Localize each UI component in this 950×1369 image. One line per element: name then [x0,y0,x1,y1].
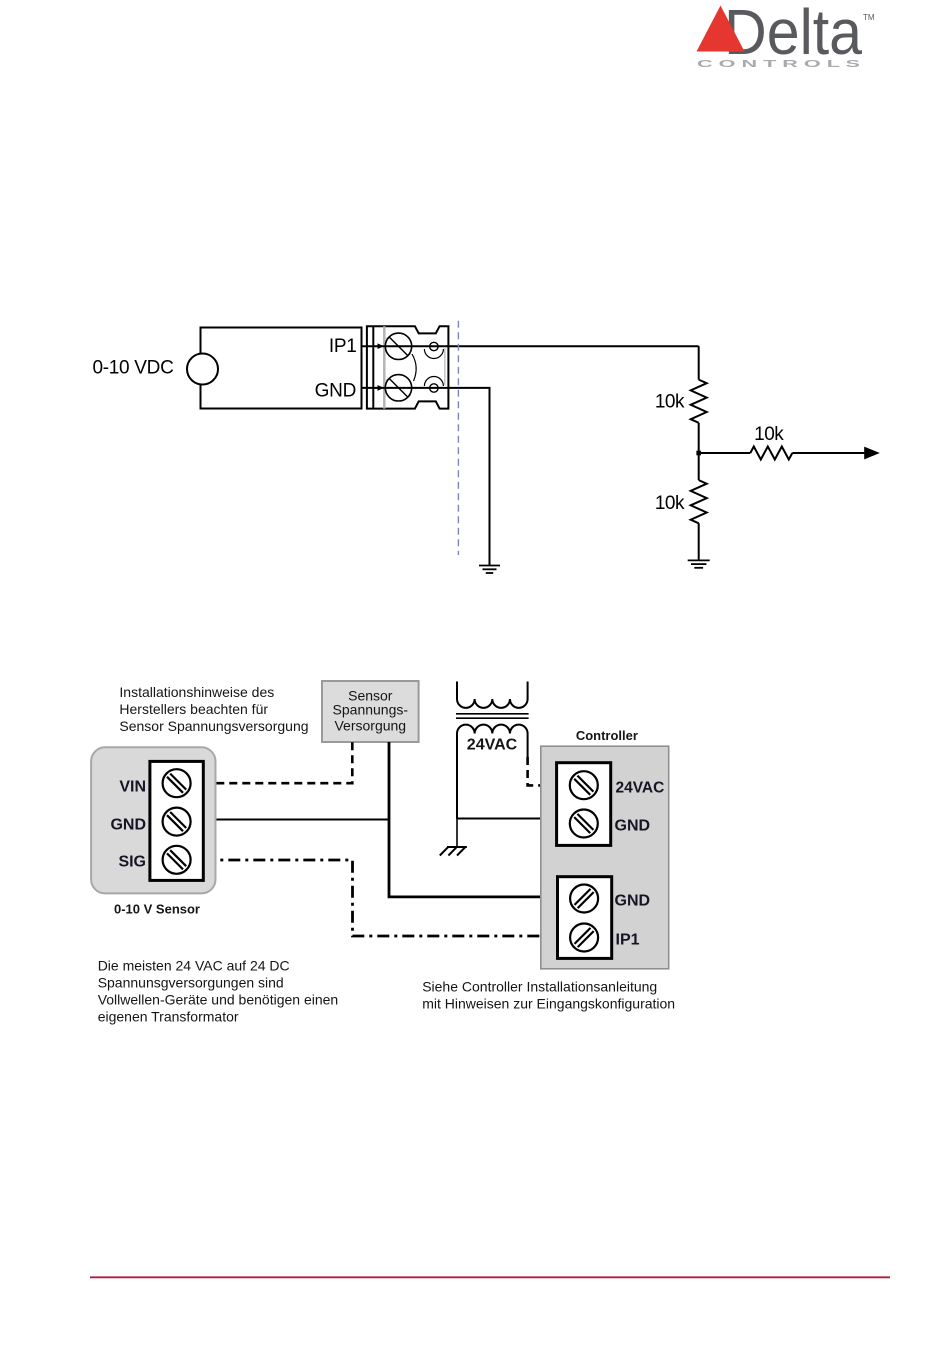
eyelet bottom [430,384,438,392]
terminal block arc under top eyelet [424,349,443,359]
controller terminal block input [558,877,612,959]
chassis ground (transformer) [440,847,467,856]
wire resistor to junction [698,423,700,453]
svg-text:mit Hinweisen zur Eingangskonf: mit Hinweisen zur Eingangskonfiguration [422,996,675,1012]
footer rule (red) [90,1276,890,1278]
note 24VAC supplies (4 lines) [98,958,339,1025]
screw VIN [163,769,191,797]
screw 24VAC [570,771,598,799]
dashed partition line (blue) [457,321,459,555]
svg-text:Spannunsgversorgungen sind: Spannunsgversorgungen sind [98,975,284,991]
transformer primary leads [456,682,458,700]
svg-text:Die meisten 24 VAC auf 24 DC: Die meisten 24 VAC auf 24 DC [98,958,290,974]
wire transformer to controller 24VAC-block GND [457,818,557,820]
terminal block TB1 outline [367,326,449,408]
svg-text:IP1: IP1 [616,932,640,949]
wire transformer right lead (solid part) [527,734,529,758]
resistor 10k lower [691,480,707,523]
wire to arrow [792,452,866,454]
sensor circle symbol [187,354,218,385]
wire 24VAC dashed to controller [528,757,557,785]
svg-text:10k: 10k [754,424,784,445]
wire GND down to ground [361,388,490,565]
wire junction to output resistor [699,452,751,454]
screw IP1 (big, slotted) [385,333,411,359]
wire transformer left lead [456,734,458,819]
svg-text:Sensor Spannungsversorgung: Sensor Spannungsversorgung [119,718,308,734]
ground symbol (divider) [688,560,710,567]
svg-text:eigenen Transformator: eigenen Transformator [98,1009,239,1025]
svg-text:Controller: Controller [576,728,638,743]
transformer primary coil [457,699,528,708]
svg-text:Spannungs-: Spannungs- [333,702,409,718]
svg-text:GND: GND [615,893,651,910]
logo triangle (Delta red) [697,6,745,52]
svg-text:C O N T R O L S: C O N T R O L S [697,58,860,70]
svg-text:0-10 V Sensor: 0-10 V Sensor [114,902,200,917]
screw GND input [570,885,598,913]
sensor box (0-10 VDC source) [201,328,362,409]
transformer secondary coil [457,725,528,734]
svg-text:TM: TM [863,13,875,22]
eyelet top [430,342,438,350]
svg-text:Siehe Controller Installations: Siehe Controller Installationsanleitung [422,979,657,995]
resistor 10k output (horizontal) [750,447,792,460]
screw GND controller power [570,810,598,838]
terminal block grey inner edge [444,348,446,385]
svg-text:GND: GND [110,817,146,834]
terminal block middle curve [412,354,416,381]
note installation hints (3 lines) [119,684,308,734]
controller body [541,746,669,969]
controller terminal block power [557,763,611,846]
svg-text:GND: GND [315,381,356,402]
wire entry arrow GND [378,385,385,391]
wire entry arrow IP1 [378,343,385,349]
svg-text:IP1: IP1 [329,336,357,357]
svg-text:0-10 VDC: 0-10 VDC [92,358,173,379]
wire lead to chassis ground [456,819,458,847]
svg-text:24VAC: 24VAC [467,737,518,754]
node junction dot [696,451,701,456]
transformer core lines [456,713,529,715]
ground symbol (GND wire) [479,566,500,574]
svg-text:Vollwellen-Geräte und benötige: Vollwellen-Geräte und benötigen einen [98,992,339,1008]
transformer T1 [457,682,528,708]
wire GND bus (sensor to supply line) [203,819,389,821]
sensor power supply box [322,681,419,742]
wire SIG dash-dot [203,860,557,936]
svg-text:10k: 10k [655,493,685,514]
svg-text:Installationshinweise des: Installationshinweise des [119,684,274,700]
screw IP1 input [570,924,598,952]
note controller installation (2 lines) [422,979,675,1012]
sensor rounded body [91,747,215,893]
wire supply to controller GND (thick) [389,742,558,897]
arrowhead output [864,447,880,460]
svg-text:VIN: VIN [119,779,146,796]
svg-text:GND: GND [615,818,651,835]
svg-text:24VAC: 24VAC [616,780,665,797]
terminal block inner vertical line [372,326,374,408]
wire VIN dashed [203,742,352,783]
svg-text:10k: 10k [655,392,685,413]
sensor terminal strip [150,761,203,880]
screw GND sensor [163,808,191,836]
screw SIG [163,846,191,874]
screw GND (big, slotted) [385,375,411,401]
svg-text:Versorgung: Versorgung [334,718,406,734]
wire IP1 to resistor network [361,345,699,347]
wire IP1 node vertical [698,346,700,379]
terminal block grey band [383,326,386,408]
resistor 10k upper [691,380,707,423]
svg-text:SIG: SIG [118,854,146,871]
wire lower resistor to ground [698,523,700,560]
wire junction to lower resistor [698,453,700,480]
svg-text:Herstellers beachten für: Herstellers beachten für [119,701,268,717]
terminal block arc over bottom eyelet [424,377,443,387]
